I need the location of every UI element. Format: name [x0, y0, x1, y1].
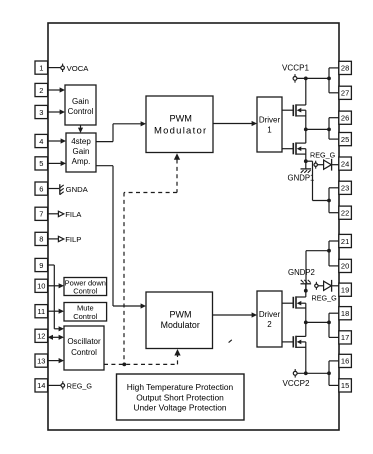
svg-text:PWM: PWM: [170, 310, 192, 320]
svg-text:Under Voltage Protection: Under Voltage Protection: [133, 403, 226, 413]
svg-text:6: 6: [39, 184, 43, 193]
svg-text:7: 7: [39, 210, 43, 219]
svg-text:12: 12: [37, 332, 45, 341]
svg-text:FILA: FILA: [65, 210, 82, 219]
svg-text:REG_G: REG_G: [312, 293, 338, 302]
svg-text:16: 16: [341, 357, 349, 366]
svg-text:Driver: Driver: [259, 116, 281, 125]
svg-text:26: 26: [341, 114, 349, 123]
svg-text:9: 9: [39, 261, 43, 270]
svg-text:5: 5: [39, 159, 43, 168]
svg-text:25: 25: [341, 135, 349, 144]
svg-text:4: 4: [39, 137, 43, 146]
svg-text:PWM: PWM: [169, 114, 191, 124]
svg-text:Modulator: Modulator: [161, 320, 200, 330]
svg-text:13: 13: [37, 356, 45, 365]
svg-text:1: 1: [267, 126, 272, 135]
svg-text:GNDA: GNDA: [66, 185, 89, 194]
svg-text:GNDP2: GNDP2: [288, 268, 315, 277]
svg-text:10: 10: [37, 282, 45, 291]
svg-text:Gain: Gain: [72, 97, 89, 106]
svg-text:Gain: Gain: [73, 147, 90, 156]
svg-text:Output Short Protection: Output Short Protection: [136, 392, 224, 402]
svg-text:VOCA: VOCA: [67, 64, 90, 73]
svg-text:REG_G: REG_G: [67, 382, 93, 391]
svg-text:19: 19: [341, 286, 349, 295]
svg-text:11: 11: [37, 307, 45, 316]
svg-text:14: 14: [37, 381, 45, 390]
svg-text:Modulator: Modulator: [154, 126, 208, 137]
svg-text:Control: Control: [73, 312, 98, 321]
svg-text:High Temperature Protection: High Temperature Protection: [127, 382, 234, 392]
svg-text:3: 3: [39, 108, 43, 117]
svg-text:8: 8: [39, 235, 43, 244]
svg-text:4step: 4step: [71, 137, 91, 146]
svg-text:20: 20: [341, 262, 349, 271]
svg-text:Control: Control: [73, 287, 98, 296]
svg-text:2: 2: [267, 320, 272, 329]
svg-text:17: 17: [341, 333, 349, 342]
svg-text:18: 18: [341, 309, 349, 318]
svg-text:2: 2: [39, 86, 43, 95]
svg-text:REG_G: REG_G: [310, 151, 336, 160]
svg-text:22: 22: [341, 209, 349, 218]
svg-text:28: 28: [341, 64, 349, 73]
svg-text:21: 21: [341, 237, 349, 246]
svg-text:1: 1: [39, 63, 43, 72]
svg-text:Control: Control: [68, 107, 94, 116]
svg-text:VCCP1: VCCP1: [282, 64, 309, 73]
svg-text:Control: Control: [71, 348, 97, 357]
svg-text:23: 23: [341, 184, 349, 193]
svg-text:15: 15: [341, 381, 349, 390]
svg-text:Amp.: Amp.: [72, 157, 91, 166]
svg-text:GNDP1: GNDP1: [288, 174, 315, 183]
svg-text:Driver: Driver: [259, 310, 281, 319]
svg-text:Oscillator: Oscillator: [67, 337, 101, 346]
svg-text:24: 24: [341, 159, 349, 168]
svg-text:VCCP2: VCCP2: [283, 379, 310, 388]
svg-text:27: 27: [341, 89, 349, 98]
svg-text:FILP: FILP: [65, 235, 81, 244]
